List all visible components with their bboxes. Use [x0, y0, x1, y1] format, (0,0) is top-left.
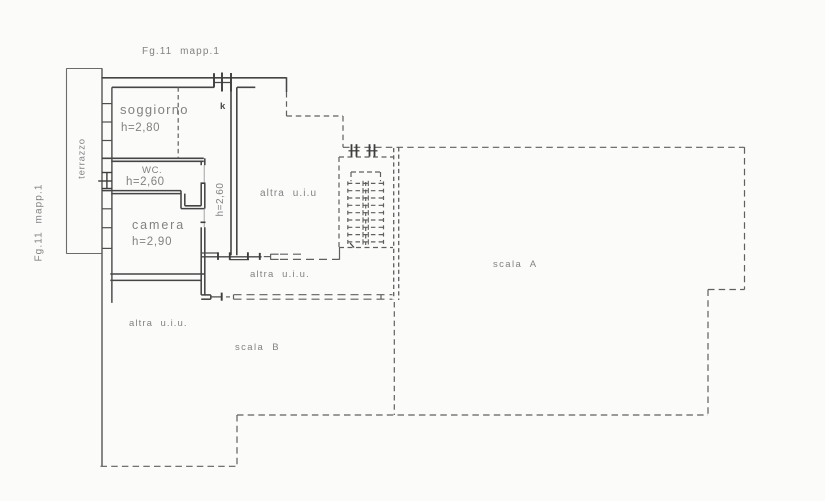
stairs center cross ticks: [363, 181, 368, 245]
label camera: [132, 218, 185, 232]
label h=2,90: [132, 236, 172, 248]
label k: [220, 101, 225, 112]
scala A top dashed edge: [343, 146, 745, 148]
wall: left outer boundary (terrace right edge continuing to bottom): [101, 68, 103, 466]
door ticks on bottom exit: [218, 252, 260, 260]
dashed boundary from apartment top-right: [287, 92, 344, 147]
wall: WC notch vertical inner: [184, 194, 186, 206]
wall: WC right corner piece: [201, 158, 205, 165]
label h=2,60 corridor rotated: [215, 177, 226, 222]
wall: corridor cap lower line: [230, 259, 250, 261]
wall: WC notch horizontal inner: [185, 205, 201, 207]
wall: WC/corridor right wall solid mid part: [201, 184, 205, 209]
wall: WC bottom (upper face): [102, 190, 181, 192]
label Fg.11 mapp.1 top: [142, 46, 220, 57]
wall: soggiorno right wall pair: [230, 73, 232, 92]
stairs treads dashed: [348, 183, 384, 242]
window W1 tick b: [221, 73, 223, 92]
label scala B: [235, 342, 280, 353]
window W1 tick a: [213, 73, 215, 87]
label scala A: [493, 259, 537, 270]
wall: top inner left part: [112, 86, 214, 88]
terrazzo outline: [67, 68, 103, 254]
wall: soggiorno bottom (lower face): [111, 160, 204, 162]
wall: top inner right stub: [237, 86, 255, 88]
scala B bottom dashed: [101, 465, 238, 467]
stairs bottom-left corner piece: [339, 247, 341, 260]
bottom dashed edge of scala A / scala B: [237, 414, 708, 416]
camera door opening leaf line: [203, 209, 205, 228]
stairs outer top dashed: [339, 156, 393, 158]
ticks on terrace wall strip: [102, 104, 112, 249]
wall: camera bottom (lower face): [110, 279, 201, 281]
wall: bottom exit upper face line: [202, 252, 218, 254]
thin line to tick on lower connector: [211, 296, 222, 298]
wall: camera bottom (upper face): [110, 273, 205, 275]
window W2 (WC to terrace): ladder symbol: [98, 173, 112, 189]
lower connector double dashed: [226, 295, 393, 300]
label soggiorno: [120, 102, 189, 117]
wall: WC notch horizontal outer: [181, 208, 205, 210]
WC door jamb tick: [201, 182, 206, 184]
stairs direction mark: [350, 243, 354, 248]
stair window hatch symbol 1: [349, 144, 360, 156]
wall: soggiorno bottom (upper face): [102, 157, 204, 159]
label terrazzo rotated: [77, 131, 88, 187]
window W1 on top wall: mid line: [214, 82, 231, 84]
label altra u.i.u. small: [250, 269, 310, 280]
stairs tread end ticks left: [347, 181, 349, 244]
scala A step dashed: [708, 289, 745, 291]
scala A left single dashed lower: [393, 302, 395, 415]
scala A lower-right dashed edge: [707, 290, 709, 416]
wall: top outer: [101, 77, 286, 79]
upper connector bracket: [264, 254, 279, 260]
label h=2,80: [121, 122, 160, 134]
scala A left wall double dashed: [394, 147, 399, 300]
upper connector dashes: [280, 254, 340, 259]
label Fg.11 mapp.1 left rotated: [34, 179, 45, 267]
stairs center line dashed: [365, 182, 367, 245]
partition dashed in soggiorno: [177, 87, 179, 158]
label h=2,60 wc: [126, 176, 165, 188]
wall: stub below camera left: [111, 280, 113, 302]
scala B step vertical dashed: [236, 415, 238, 466]
bold tick lower connector: [221, 293, 223, 301]
camera door jamb tick: [201, 221, 206, 223]
label altra u.i.u. bottom-left: [129, 318, 188, 329]
wall: camera right wall lower solid: [201, 227, 205, 295]
stairs tread end ticks right: [383, 181, 385, 244]
wall: WC bottom (lower face): [111, 193, 181, 195]
stairs outer left dashed: [338, 157, 340, 247]
wall: bottom exit main line: [202, 256, 262, 258]
wall: rooms left inner face: [111, 87, 113, 302]
wall: solid corner at top-right of apartment: [286, 77, 288, 92]
stairs landing U rail dashed: [351, 172, 381, 181]
scala A right dashed edge: [744, 147, 746, 289]
label WC.: [142, 165, 162, 176]
stair window hatch symbol 2: [367, 144, 378, 156]
wall: WC notch vertical outer: [180, 191, 182, 209]
wall: camera lower foot: [201, 295, 211, 299]
WC door opening leaf line: [203, 165, 205, 182]
stairs bottom dashed: [339, 247, 393, 249]
label altra u.i.u middle: [260, 188, 317, 199]
